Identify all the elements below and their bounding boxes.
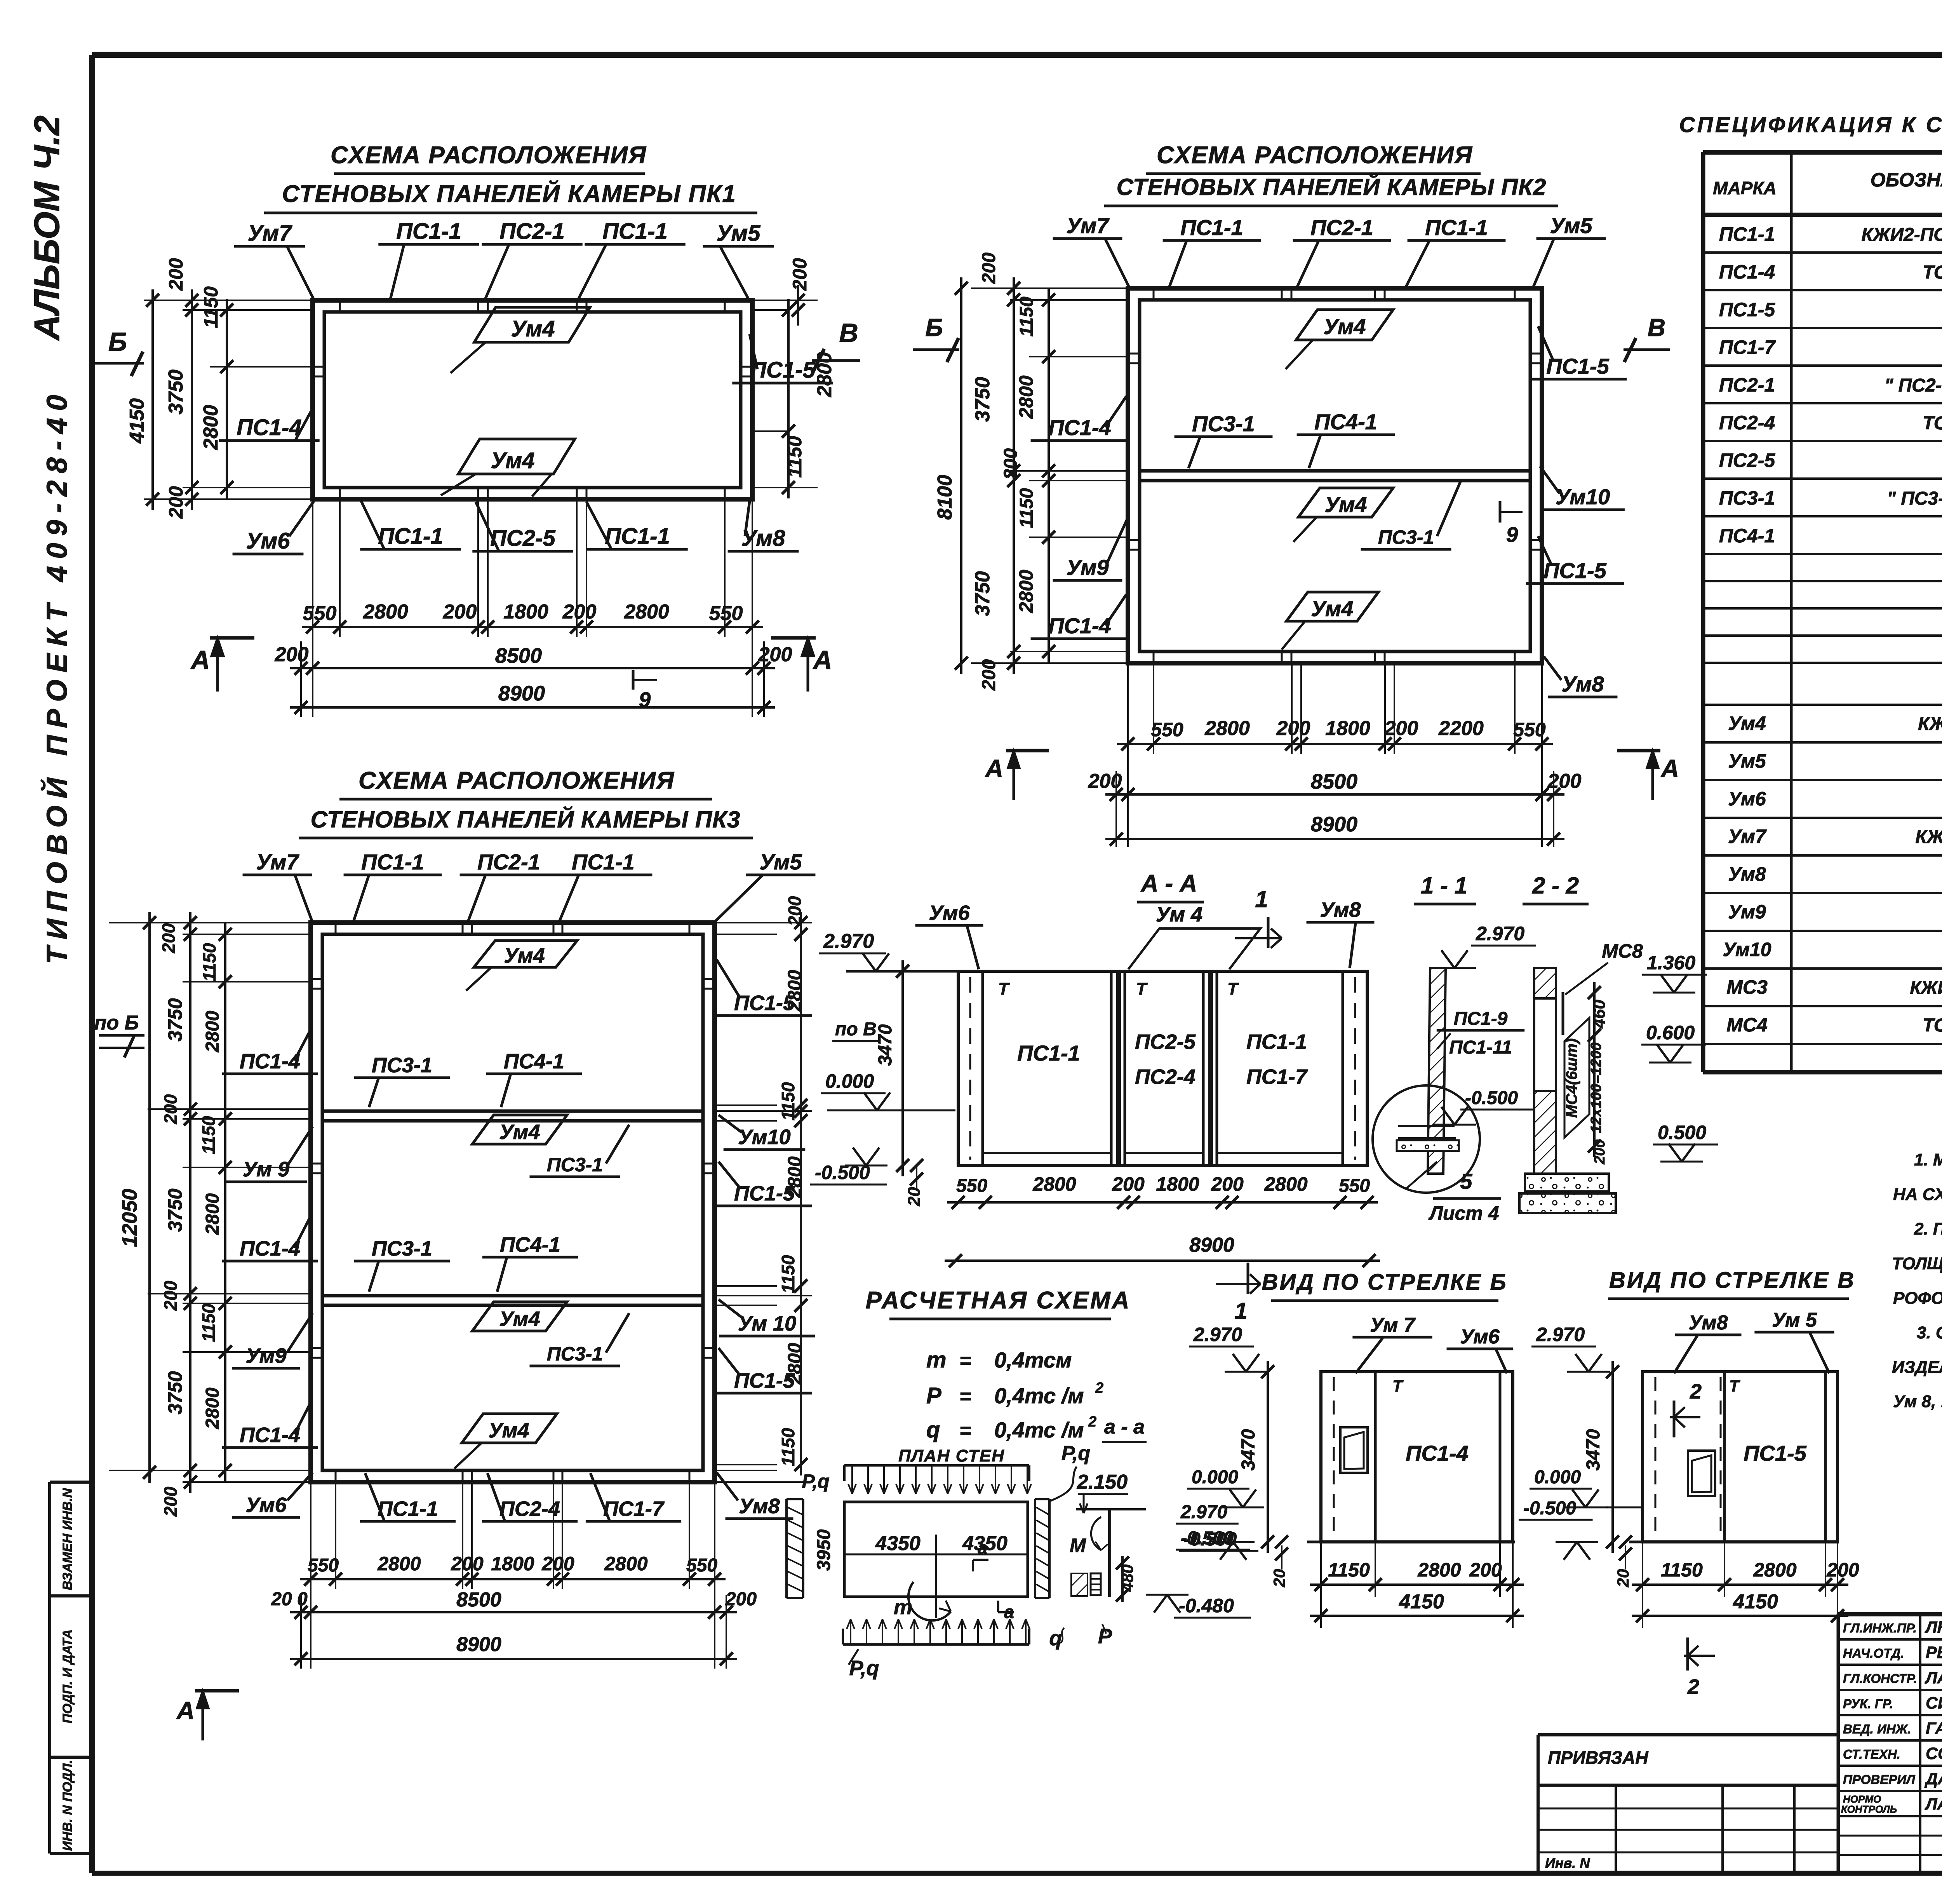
svg-text:Ум5: Ум5 xyxy=(1550,213,1592,238)
svg-text:20 0: 20 0 xyxy=(271,1589,308,1610)
svg-text:ГЛ.ИНЖ.ПР.: ГЛ.ИНЖ.ПР. xyxy=(1843,1621,1917,1635)
svg-text:3750: 3750 xyxy=(164,998,186,1041)
svg-text:200: 200 xyxy=(979,253,999,284)
svg-text:Ум9: Ум9 xyxy=(1728,901,1766,923)
svg-text:2800: 2800 xyxy=(785,1156,805,1198)
svg-text:550: 550 xyxy=(1339,1176,1370,1196)
svg-text:1150: 1150 xyxy=(1016,296,1037,337)
svg-text:550: 550 xyxy=(686,1555,717,1576)
svg-text:2800: 2800 xyxy=(604,1553,647,1575)
svg-text:12050: 12050 xyxy=(118,1189,141,1247)
svg-text:ПС4-1: ПС4-1 xyxy=(500,1233,560,1256)
svg-text:2800: 2800 xyxy=(202,1387,223,1429)
svg-text:Ум5: Ум5 xyxy=(1728,750,1766,772)
svg-text:ТО ЖЕ: ТО ЖЕ xyxy=(1923,413,1942,434)
svg-text:В: В xyxy=(1648,314,1665,341)
svg-text:А: А xyxy=(176,1697,195,1725)
svg-text:P,q: P,q xyxy=(1061,1442,1090,1465)
svg-text:2800: 2800 xyxy=(1015,570,1037,613)
svg-text:Ум5: Ум5 xyxy=(717,221,761,246)
svg-text:ПС1-4: ПС1-4 xyxy=(240,1423,300,1447)
svg-text:Т: Т xyxy=(1136,979,1148,998)
svg-text:200: 200 xyxy=(275,643,309,666)
svg-text:2: 2 xyxy=(1095,1380,1103,1396)
svg-text:Ум6: Ум6 xyxy=(1460,1326,1500,1348)
svg-text:Ум8: Ум8 xyxy=(739,1495,780,1518)
svg-text:200: 200 xyxy=(160,1094,181,1124)
svg-text:4150: 4150 xyxy=(1733,1590,1778,1613)
svg-text:ПС1-1: ПС1-1 xyxy=(605,524,670,549)
svg-text:200: 200 xyxy=(1826,1559,1859,1581)
svg-text:Ум4: Ум4 xyxy=(1311,596,1353,621)
svg-text:ПРИВЯЗАН: ПРИВЯЗАН xyxy=(1548,1747,1648,1768)
svg-text:P: P xyxy=(1098,1625,1112,1648)
svg-text:1150: 1150 xyxy=(1328,1559,1370,1581)
svg-text:ЛЮБАВИН: ЛЮБАВИН xyxy=(1925,1618,1942,1637)
svg-text:Ум 8, Ум 10.: Ум 8, Ум 10. xyxy=(1893,1392,1942,1411)
svg-text:Ум 5: Ум 5 xyxy=(1772,1309,1817,1331)
svg-text:ПС3-1: ПС3-1 xyxy=(1719,487,1775,509)
svg-text:СХЕМА РАСПОЛОЖЕНИЯ: СХЕМА РАСПОЛОЖЕНИЯ xyxy=(1157,142,1473,169)
svg-text:Т: Т xyxy=(1392,1377,1404,1395)
svg-text:МАРКА: МАРКА xyxy=(1713,178,1777,198)
svg-text:=: = xyxy=(959,1350,971,1372)
svg-text:2800: 2800 xyxy=(624,601,669,623)
svg-text:СТ.ТЕХН.: СТ.ТЕХН. xyxy=(1843,1747,1900,1761)
svg-text:200: 200 xyxy=(541,1553,574,1575)
svg-text:q: q xyxy=(1049,1627,1062,1650)
svg-text:Ум10: Ум10 xyxy=(1723,939,1771,960)
svg-text:200: 200 xyxy=(451,1553,484,1575)
svg-text:200: 200 xyxy=(1211,1173,1244,1195)
svg-text:2. ПОД СТЕНОВЫМИ ПАНЕЛЯМИ П: 2. ПОД СТЕНОВЫМИ ПАНЕЛЯМИ ПО ПЛИТАМ ДНИЩ… xyxy=(1914,1219,1942,1239)
svg-text:СПЕЦИФИКАЦИЯ К СХЕМАМ РАСП: СПЕЦИФИКАЦИЯ К СХЕМАМ РАСПОЛОЖЕНИЯ ЭЛЕМЕ… xyxy=(1679,112,1942,137)
svg-text:200: 200 xyxy=(158,923,179,953)
svg-text:ПС1-1: ПС1-1 xyxy=(572,850,635,874)
svg-text:ТО ЖЕ: ТО ЖЕ xyxy=(1923,1015,1942,1036)
svg-text:ПС1-1: ПС1-1 xyxy=(361,850,424,874)
svg-text:0,4тсм: 0,4тсм xyxy=(994,1348,1072,1372)
svg-text:200: 200 xyxy=(443,601,477,623)
svg-text:4150: 4150 xyxy=(1399,1590,1444,1613)
svg-text:Ум4: Ум4 xyxy=(499,1307,540,1331)
svg-text:2200: 2200 xyxy=(1438,717,1484,740)
svg-text:Ч.2: Ч.2 xyxy=(27,115,67,171)
svg-text:Ум5: Ум5 xyxy=(759,850,802,874)
svg-text:Ум7: Ум7 xyxy=(1728,826,1767,847)
svg-text:ТО ЖЕ: ТО ЖЕ xyxy=(1923,262,1942,283)
svg-text:8900: 8900 xyxy=(498,682,545,705)
svg-text:Инв. N: Инв. N xyxy=(1545,1855,1590,1871)
svg-text:200: 200 xyxy=(1088,770,1122,793)
svg-text:Ум4: Ум4 xyxy=(504,944,545,967)
svg-text:1 - 1: 1 - 1 xyxy=(1421,873,1467,899)
svg-text:Ум8: Ум8 xyxy=(741,526,786,551)
svg-text:200: 200 xyxy=(1112,1173,1145,1195)
svg-text:ПС1-4: ПС1-4 xyxy=(240,1237,300,1260)
svg-text:КОНТРОЛЬ: КОНТРОЛЬ xyxy=(1841,1803,1897,1815)
svg-text:2800: 2800 xyxy=(785,970,805,1012)
svg-text:А - А: А - А xyxy=(1140,870,1197,897)
svg-text:ПС1-1: ПС1-1 xyxy=(602,219,667,244)
svg-text:2: 2 xyxy=(1690,1380,1702,1403)
svg-text:0,4тс /м: 0,4тс /м xyxy=(994,1383,1084,1408)
svg-text:20: 20 xyxy=(905,1187,924,1206)
svg-text:1150: 1150 xyxy=(200,286,222,328)
svg-text:ПС4-1: ПС4-1 xyxy=(1719,525,1775,547)
svg-text:ПС1-5: ПС1-5 xyxy=(1719,299,1776,321)
svg-text:ПС2-5: ПС2-5 xyxy=(490,526,555,551)
svg-text:2800: 2800 xyxy=(1015,375,1037,419)
svg-text:3. СОЕДИНИТЕЛЬНЫЕ ИЗДЕЛИЯ МС: 3. СОЕДИНИТЕЛЬНЫЕ ИЗДЕЛИЯ МС3, МС4 ПРИВА… xyxy=(1917,1323,1942,1342)
svg-text:ПС2-4: ПС2-4 xyxy=(1135,1065,1195,1089)
svg-text:Ум6: Ум6 xyxy=(1728,788,1766,810)
svg-text:9: 9 xyxy=(639,688,651,712)
svg-text:2.970: 2.970 xyxy=(1193,1324,1242,1345)
svg-text:ВЗАМЕН ИНВ.N: ВЗАМЕН ИНВ.N xyxy=(60,1488,75,1590)
svg-text:550: 550 xyxy=(1151,719,1183,740)
svg-text:КЖ11-10: КЖ11-10 xyxy=(1915,827,1942,847)
svg-text:8500: 8500 xyxy=(1311,770,1357,793)
svg-text:МС4: МС4 xyxy=(1726,1014,1768,1036)
svg-text:m: m xyxy=(894,1596,912,1619)
svg-text:ПС1-1: ПС1-1 xyxy=(1425,215,1488,240)
svg-text:Ум 4: Ум 4 xyxy=(1156,903,1202,926)
svg-text:200: 200 xyxy=(1384,717,1418,740)
svg-text:СТЕНОВЫХ ПАНЕЛЕЙ КАМЕРЫ ПК3: СТЕНОВЫХ ПАНЕЛЕЙ КАМЕРЫ ПК3 xyxy=(311,806,741,833)
svg-text:8900: 8900 xyxy=(456,1633,501,1656)
svg-text:1150: 1150 xyxy=(1016,488,1037,528)
svg-text:ПС2-1: ПС2-1 xyxy=(1719,374,1775,396)
svg-text:Ум9: Ум9 xyxy=(245,1344,286,1367)
svg-text:ВИД ПО СТРЕЛКЕ В: ВИД ПО СТРЕЛКЕ В xyxy=(1609,1268,1855,1293)
svg-text:200: 200 xyxy=(562,601,597,623)
svg-text:Ум8: Ум8 xyxy=(1561,672,1604,696)
svg-text:=: = xyxy=(959,1385,971,1408)
svg-text:СХЕМА РАСПОЛОЖЕНИЯ: СХЕМА РАСПОЛОЖЕНИЯ xyxy=(358,767,675,794)
svg-text:А: А xyxy=(812,645,832,675)
svg-text:200: 200 xyxy=(1547,770,1582,793)
svg-text:ПС1-7: ПС1-7 xyxy=(1246,1065,1308,1089)
svg-text:а - а: а - а xyxy=(1104,1416,1145,1438)
svg-text:3750: 3750 xyxy=(165,369,187,415)
svg-text:8900: 8900 xyxy=(1189,1234,1234,1256)
svg-text:2800: 2800 xyxy=(1417,1559,1461,1581)
svg-text:Т: Т xyxy=(998,979,1010,998)
svg-text:-0.480: -0.480 xyxy=(1179,1595,1234,1617)
svg-text:2800: 2800 xyxy=(377,1553,421,1575)
svg-text:3750: 3750 xyxy=(164,1188,186,1232)
svg-text:Ум 10: Ум 10 xyxy=(738,1312,796,1335)
svg-text:200: 200 xyxy=(1469,1559,1502,1581)
svg-text:МС8: МС8 xyxy=(1602,940,1643,962)
svg-text:20: 20 xyxy=(1270,1569,1288,1588)
svg-text:ТИПОВОЙ ПРОЕКТ 409-28-40: ТИПОВОЙ ПРОЕКТ 409-28-40 xyxy=(40,388,73,964)
svg-text:2800: 2800 xyxy=(1753,1559,1796,1581)
svg-text:P,q: P,q xyxy=(802,1470,829,1492)
svg-text:Т: Т xyxy=(1729,1377,1740,1395)
svg-text:3470: 3470 xyxy=(875,1024,896,1066)
svg-text:0.600: 0.600 xyxy=(1646,1022,1695,1043)
svg-text:ОБОЗНАЧЕННЕ: ОБОЗНАЧЕННЕ xyxy=(1871,169,1942,191)
svg-text:ПС3-1: ПС3-1 xyxy=(1192,411,1255,436)
svg-text:ПС2-5: ПС2-5 xyxy=(1719,449,1776,471)
svg-text:0,4тс /м: 0,4тс /м xyxy=(994,1418,1084,1442)
svg-text:ТОЛЩИНОЙ 20ММ ИЗ БЕТОНА МА: ТОЛЩИНОЙ 20ММ ИЗ БЕТОНА МАРКИ 100 НА МЕЛ… xyxy=(1892,1253,1942,1273)
svg-text:НА СХЕМАХ РАСПОЛОЖЕНИЯ СТЕН: НА СХЕМАХ РАСПОЛОЖЕНИЯ СТЕНОВЫХ ПАНЕЛЕЙ. xyxy=(1893,1184,1942,1204)
svg-text:8500: 8500 xyxy=(456,1589,501,1611)
svg-text:2 - 2: 2 - 2 xyxy=(1532,873,1579,899)
svg-text:12х100=1200: 12х100=1200 xyxy=(1588,1042,1604,1133)
svg-text:8100: 8100 xyxy=(934,475,956,520)
svg-text:1: 1 xyxy=(1255,886,1268,912)
svg-text:1150: 1150 xyxy=(1661,1559,1703,1581)
svg-text:3750: 3750 xyxy=(164,1371,186,1414)
svg-text:550: 550 xyxy=(1513,719,1546,740)
svg-text:2800: 2800 xyxy=(202,1193,223,1235)
svg-text:ПС1-4: ПС1-4 xyxy=(237,415,301,440)
svg-text:2800: 2800 xyxy=(363,601,408,623)
svg-text:ПС1-1: ПС1-1 xyxy=(1719,223,1775,245)
svg-text:Ум10: Ум10 xyxy=(738,1125,790,1149)
svg-text:СИНЕЛЬНИКОВА: СИНЕЛЬНИКОВА xyxy=(1926,1694,1942,1712)
svg-text:Ум7: Ум7 xyxy=(248,221,293,246)
svg-text:МС4(6шт): МС4(6шт) xyxy=(1563,1038,1580,1118)
svg-text:РЫБКИНА: РЫБКИНА xyxy=(1926,1643,1942,1662)
svg-text:2.970: 2.970 xyxy=(1476,923,1524,944)
svg-text:Ум4: Ум4 xyxy=(511,316,555,341)
svg-text:ПОДП. И ДАТА: ПОДП. И ДАТА xyxy=(60,1629,75,1723)
svg-text:2800: 2800 xyxy=(1032,1173,1076,1195)
svg-text:1800: 1800 xyxy=(491,1553,534,1575)
svg-text:РАСЧЕТНАЯ СХЕМА: РАСЧЕТНАЯ СХЕМА xyxy=(866,1287,1131,1314)
svg-text:-0.500: -0.500 xyxy=(1465,1088,1518,1108)
svg-text:ПС1-4: ПС1-4 xyxy=(240,1050,300,1073)
svg-text:СОБОЛЕВА: СОБОЛЕВА xyxy=(1926,1744,1942,1763)
svg-text:ПС1-1: ПС1-1 xyxy=(378,1497,438,1521)
svg-text:Ум6: Ум6 xyxy=(929,901,970,925)
svg-text:РОФОБИЗИРУЮЩЕЙ ДОБАВКОЙ ГКЖ: РОФОБИЗИРУЮЩЕЙ ДОБАВКОЙ ГКЖ - 94. xyxy=(1893,1288,1942,1308)
svg-text:ПС1-7: ПС1-7 xyxy=(603,1497,665,1521)
svg-text:Т: Т xyxy=(1227,979,1239,998)
svg-text:1800: 1800 xyxy=(1156,1173,1199,1195)
svg-text:0.000: 0.000 xyxy=(1534,1467,1581,1488)
svg-text:2800: 2800 xyxy=(1204,717,1250,740)
svg-text:А: А xyxy=(1660,754,1679,782)
svg-text:3750: 3750 xyxy=(971,377,994,422)
svg-text:550: 550 xyxy=(303,602,337,625)
svg-text:ПС1-4: ПС1-4 xyxy=(1048,415,1111,440)
svg-text:1150: 1150 xyxy=(778,1428,798,1466)
svg-text:m: m xyxy=(926,1347,947,1373)
svg-text:ПС1-4: ПС1-4 xyxy=(1048,613,1111,638)
svg-text:МС3: МС3 xyxy=(1726,976,1768,998)
svg-text:-0.500: -0.500 xyxy=(1181,1528,1234,1549)
svg-text:Ум8: Ум8 xyxy=(1320,898,1361,922)
svg-text:А: А xyxy=(985,754,1003,782)
svg-text:ПС2-4: ПС2-4 xyxy=(1719,412,1775,434)
svg-text:2: 2 xyxy=(1687,1675,1699,1698)
svg-text:ГАЛЬПЕРИНА: ГАЛЬПЕРИНА xyxy=(1926,1719,1942,1738)
svg-text:8900: 8900 xyxy=(1311,813,1357,836)
svg-text:2800: 2800 xyxy=(202,1010,223,1052)
svg-text:ПС1-1: ПС1-1 xyxy=(1017,1041,1080,1065)
svg-text:1: 1 xyxy=(1234,1298,1247,1324)
svg-text:ЛАПКИН: ЛАПКИН xyxy=(1925,1669,1942,1687)
svg-text:2.970: 2.970 xyxy=(1180,1502,1227,1523)
svg-text:Ум8: Ум8 xyxy=(1688,1312,1728,1334)
svg-text:3470: 3470 xyxy=(1238,1429,1259,1470)
svg-text:а: а xyxy=(978,1538,988,1558)
svg-text:Ум4: Ум4 xyxy=(491,448,535,473)
svg-text:9: 9 xyxy=(1506,523,1518,547)
svg-text:550: 550 xyxy=(956,1176,987,1196)
svg-text:Ум6: Ум6 xyxy=(245,1493,287,1517)
svg-text:2.970: 2.970 xyxy=(823,930,874,953)
svg-text:1150: 1150 xyxy=(784,436,806,478)
svg-text:Ум 9: Ум 9 xyxy=(243,1158,289,1181)
svg-text:1150: 1150 xyxy=(778,1255,798,1293)
svg-text:" ПС3-1÷ПС4-1: " ПС3-1÷ПС4-1 xyxy=(1887,488,1942,509)
svg-text:3470: 3470 xyxy=(1583,1429,1604,1470)
svg-text:В: В xyxy=(839,318,858,348)
svg-text:Ум7: Ум7 xyxy=(1066,213,1110,238)
svg-text:ПЛАН СТЕН: ПЛАН СТЕН xyxy=(898,1446,1005,1465)
svg-text:ВЕД. ИНЖ.: ВЕД. ИНЖ. xyxy=(1843,1722,1911,1736)
svg-text:КЖИ2-ПС1-1-ПС1 - 7: КЖИ2-ПС1-1-ПС1 - 7 xyxy=(1862,225,1942,245)
svg-text:ВИД ПО СТРЕЛКЕ Б: ВИД ПО СТРЕЛКЕ Б xyxy=(1262,1270,1507,1295)
svg-text:М: М xyxy=(1070,1535,1086,1556)
svg-text:Б: Б xyxy=(925,314,943,341)
svg-text:ПС1-7: ПС1-7 xyxy=(1719,336,1776,358)
svg-text:2800: 2800 xyxy=(813,352,836,397)
svg-text:1150: 1150 xyxy=(198,1303,219,1342)
svg-text:ПС1-5: ПС1-5 xyxy=(1544,558,1607,583)
svg-text:АЛЬБОМ: АЛЬБОМ xyxy=(27,181,67,341)
svg-text:1800: 1800 xyxy=(503,601,548,623)
svg-text:ПС1-11: ПС1-11 xyxy=(1449,1037,1512,1058)
svg-text:4150: 4150 xyxy=(126,398,148,444)
svg-text:ПС3-1: ПС3-1 xyxy=(547,1343,603,1365)
svg-text:по В: по В xyxy=(835,1019,877,1040)
svg-text:Ум10: Ум10 xyxy=(1556,484,1610,509)
svg-text:2800: 2800 xyxy=(200,405,222,450)
svg-text:2800: 2800 xyxy=(1264,1173,1307,1195)
svg-text:200: 200 xyxy=(1276,717,1310,740)
svg-text:Ум4: Ум4 xyxy=(1728,712,1766,734)
svg-text:РУК. ГР.: РУК. ГР. xyxy=(1843,1697,1893,1711)
svg-text:2800: 2800 xyxy=(785,1343,805,1385)
svg-text:ПС3-1: ПС3-1 xyxy=(1378,526,1434,548)
svg-text:Б: Б xyxy=(108,327,127,357)
svg-text:200: 200 xyxy=(979,659,999,691)
svg-text:5: 5 xyxy=(1460,1169,1472,1193)
svg-text:ПС2-4: ПС2-4 xyxy=(499,1497,560,1521)
svg-text:ПС4-1: ПС4-1 xyxy=(504,1050,564,1073)
svg-text:1.360: 1.360 xyxy=(1647,952,1695,974)
svg-text:-0.500: -0.500 xyxy=(1523,1498,1576,1519)
svg-text:8500: 8500 xyxy=(495,644,542,667)
svg-text:1. МОНТАЖ СТЕНОВЫХ ПАНЕЛЕЙ: 1. МОНТАЖ СТЕНОВЫХ ПАНЕЛЕЙ ВЕСТИ В СООТВ… xyxy=(1914,1150,1942,1169)
svg-text:200: 200 xyxy=(160,1486,181,1517)
svg-text:ПС2-1: ПС2-1 xyxy=(477,850,540,874)
svg-text:ПС1-1: ПС1-1 xyxy=(396,219,461,244)
svg-text:3750: 3750 xyxy=(971,571,994,616)
svg-text:ПРОВЕРИЛ: ПРОВЕРИЛ xyxy=(1843,1772,1916,1787)
svg-text:Ум4: Ум4 xyxy=(488,1419,529,1442)
svg-text:ПС1-1: ПС1-1 xyxy=(378,524,443,549)
svg-text:480: 480 xyxy=(1118,1564,1136,1592)
svg-text:по Б: по Б xyxy=(94,1012,139,1034)
svg-text:СХЕМА РАСПОЛОЖЕНИЯ: СХЕМА РАСПОЛОЖЕНИЯ xyxy=(331,142,647,169)
svg-text:1800: 1800 xyxy=(1325,717,1370,740)
svg-text:ПС1-5: ПС1-5 xyxy=(750,357,815,383)
svg-text:ПС1-5: ПС1-5 xyxy=(1744,1441,1807,1465)
svg-text:А: А xyxy=(190,645,210,675)
svg-text:3950: 3950 xyxy=(814,1529,834,1571)
svg-text:ПС1-5: ПС1-5 xyxy=(1546,354,1610,378)
svg-text:Ум4: Ум4 xyxy=(1323,314,1366,339)
svg-text:Ум4: Ум4 xyxy=(1324,492,1367,517)
svg-text:2: 2 xyxy=(1088,1414,1096,1430)
svg-text:ПС2-5: ПС2-5 xyxy=(1135,1030,1196,1054)
svg-text:=: = xyxy=(959,1420,971,1442)
svg-text:ИНВ. N ПОДЛ.: ИНВ. N ПОДЛ. xyxy=(60,1760,75,1851)
svg-text:2.150: 2.150 xyxy=(1077,1471,1128,1493)
svg-text:4350: 4350 xyxy=(875,1532,921,1555)
svg-text:Ум9: Ум9 xyxy=(1066,555,1108,580)
svg-text:Ум4: Ум4 xyxy=(499,1120,540,1144)
svg-text:ПС2-1: ПС2-1 xyxy=(1310,215,1373,240)
svg-text:200: 200 xyxy=(725,1589,757,1610)
svg-text:ПС1-4: ПС1-4 xyxy=(1719,261,1775,283)
svg-text:0.000: 0.000 xyxy=(825,1070,874,1092)
svg-text:200: 200 xyxy=(1001,448,1021,480)
svg-text:ПС1-4: ПС1-4 xyxy=(1406,1441,1469,1465)
svg-text:ПС2-1: ПС2-1 xyxy=(499,219,564,244)
svg-text:КЖИ2-: КЖИ2- xyxy=(1910,977,1942,998)
svg-text:200: 200 xyxy=(165,486,187,519)
svg-text:550: 550 xyxy=(709,602,743,625)
svg-text:1150: 1150 xyxy=(199,943,219,981)
svg-text:Ум7: Ум7 xyxy=(256,850,299,874)
svg-text:Ум6: Ум6 xyxy=(246,528,291,554)
svg-text:ПС3-1: ПС3-1 xyxy=(547,1154,603,1176)
svg-text:0.500: 0.500 xyxy=(1658,1122,1706,1143)
svg-text:ГЛ.КОНСТР.: ГЛ.КОНСТР. xyxy=(1843,1671,1917,1686)
svg-text:2.970: 2.970 xyxy=(1536,1324,1585,1345)
svg-text:НАЧ.ОТД.: НАЧ.ОТД. xyxy=(1843,1646,1904,1660)
svg-text:ПС1-1: ПС1-1 xyxy=(1180,215,1243,240)
svg-text:ПС3-1: ПС3-1 xyxy=(372,1237,432,1260)
svg-text:200: 200 xyxy=(160,1280,181,1311)
svg-text:ЛАПКИН: ЛАПКИН xyxy=(1925,1795,1942,1813)
svg-text:КЖ11- 9: КЖ11- 9 xyxy=(1918,714,1942,734)
svg-text:P,q: P,q xyxy=(849,1657,879,1680)
svg-text:ПС1-9: ПС1-9 xyxy=(1454,1009,1508,1029)
svg-text:" ПС2-1÷ ПС2-5: " ПС2-1÷ ПС2-5 xyxy=(1885,375,1942,396)
svg-text:ИЗДЕЛИЮ, ОБРАМЛЯЮЩЕМУ ОТВЕРСТ: ИЗДЕЛИЮ, ОБРАМЛЯЮЩЕМУ ОТВЕРСТИЕ В МОНОЛИ… xyxy=(1892,1358,1942,1377)
svg-text:СТЕНОВЫХ ПАНЕЛЕЙ КАМЕРЫ П: СТЕНОВЫХ ПАНЕЛЕЙ КАМЕРЫ ПК2 xyxy=(1117,174,1547,200)
svg-text:ПС4-1: ПС4-1 xyxy=(1314,409,1377,434)
svg-text:ПС3-1: ПС3-1 xyxy=(372,1054,432,1077)
svg-text:P: P xyxy=(926,1383,941,1408)
svg-text:q: q xyxy=(926,1417,940,1442)
svg-text:200: 200 xyxy=(758,643,792,666)
svg-text:0.000: 0.000 xyxy=(1192,1467,1238,1488)
svg-text:200: 200 xyxy=(165,258,187,291)
svg-text:200: 200 xyxy=(789,258,811,291)
